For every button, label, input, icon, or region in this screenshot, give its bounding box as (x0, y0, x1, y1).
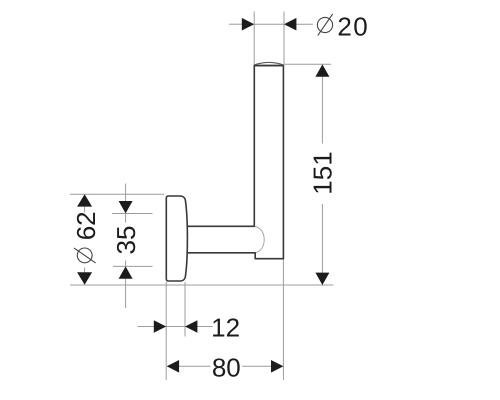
svg-text:151: 151 (308, 151, 338, 194)
svg-text:62: 62 (71, 211, 101, 240)
svg-text:20: 20 (337, 11, 369, 41)
svg-text:35: 35 (111, 226, 141, 255)
svg-text:80: 80 (212, 353, 241, 383)
svg-text:12: 12 (211, 313, 240, 343)
